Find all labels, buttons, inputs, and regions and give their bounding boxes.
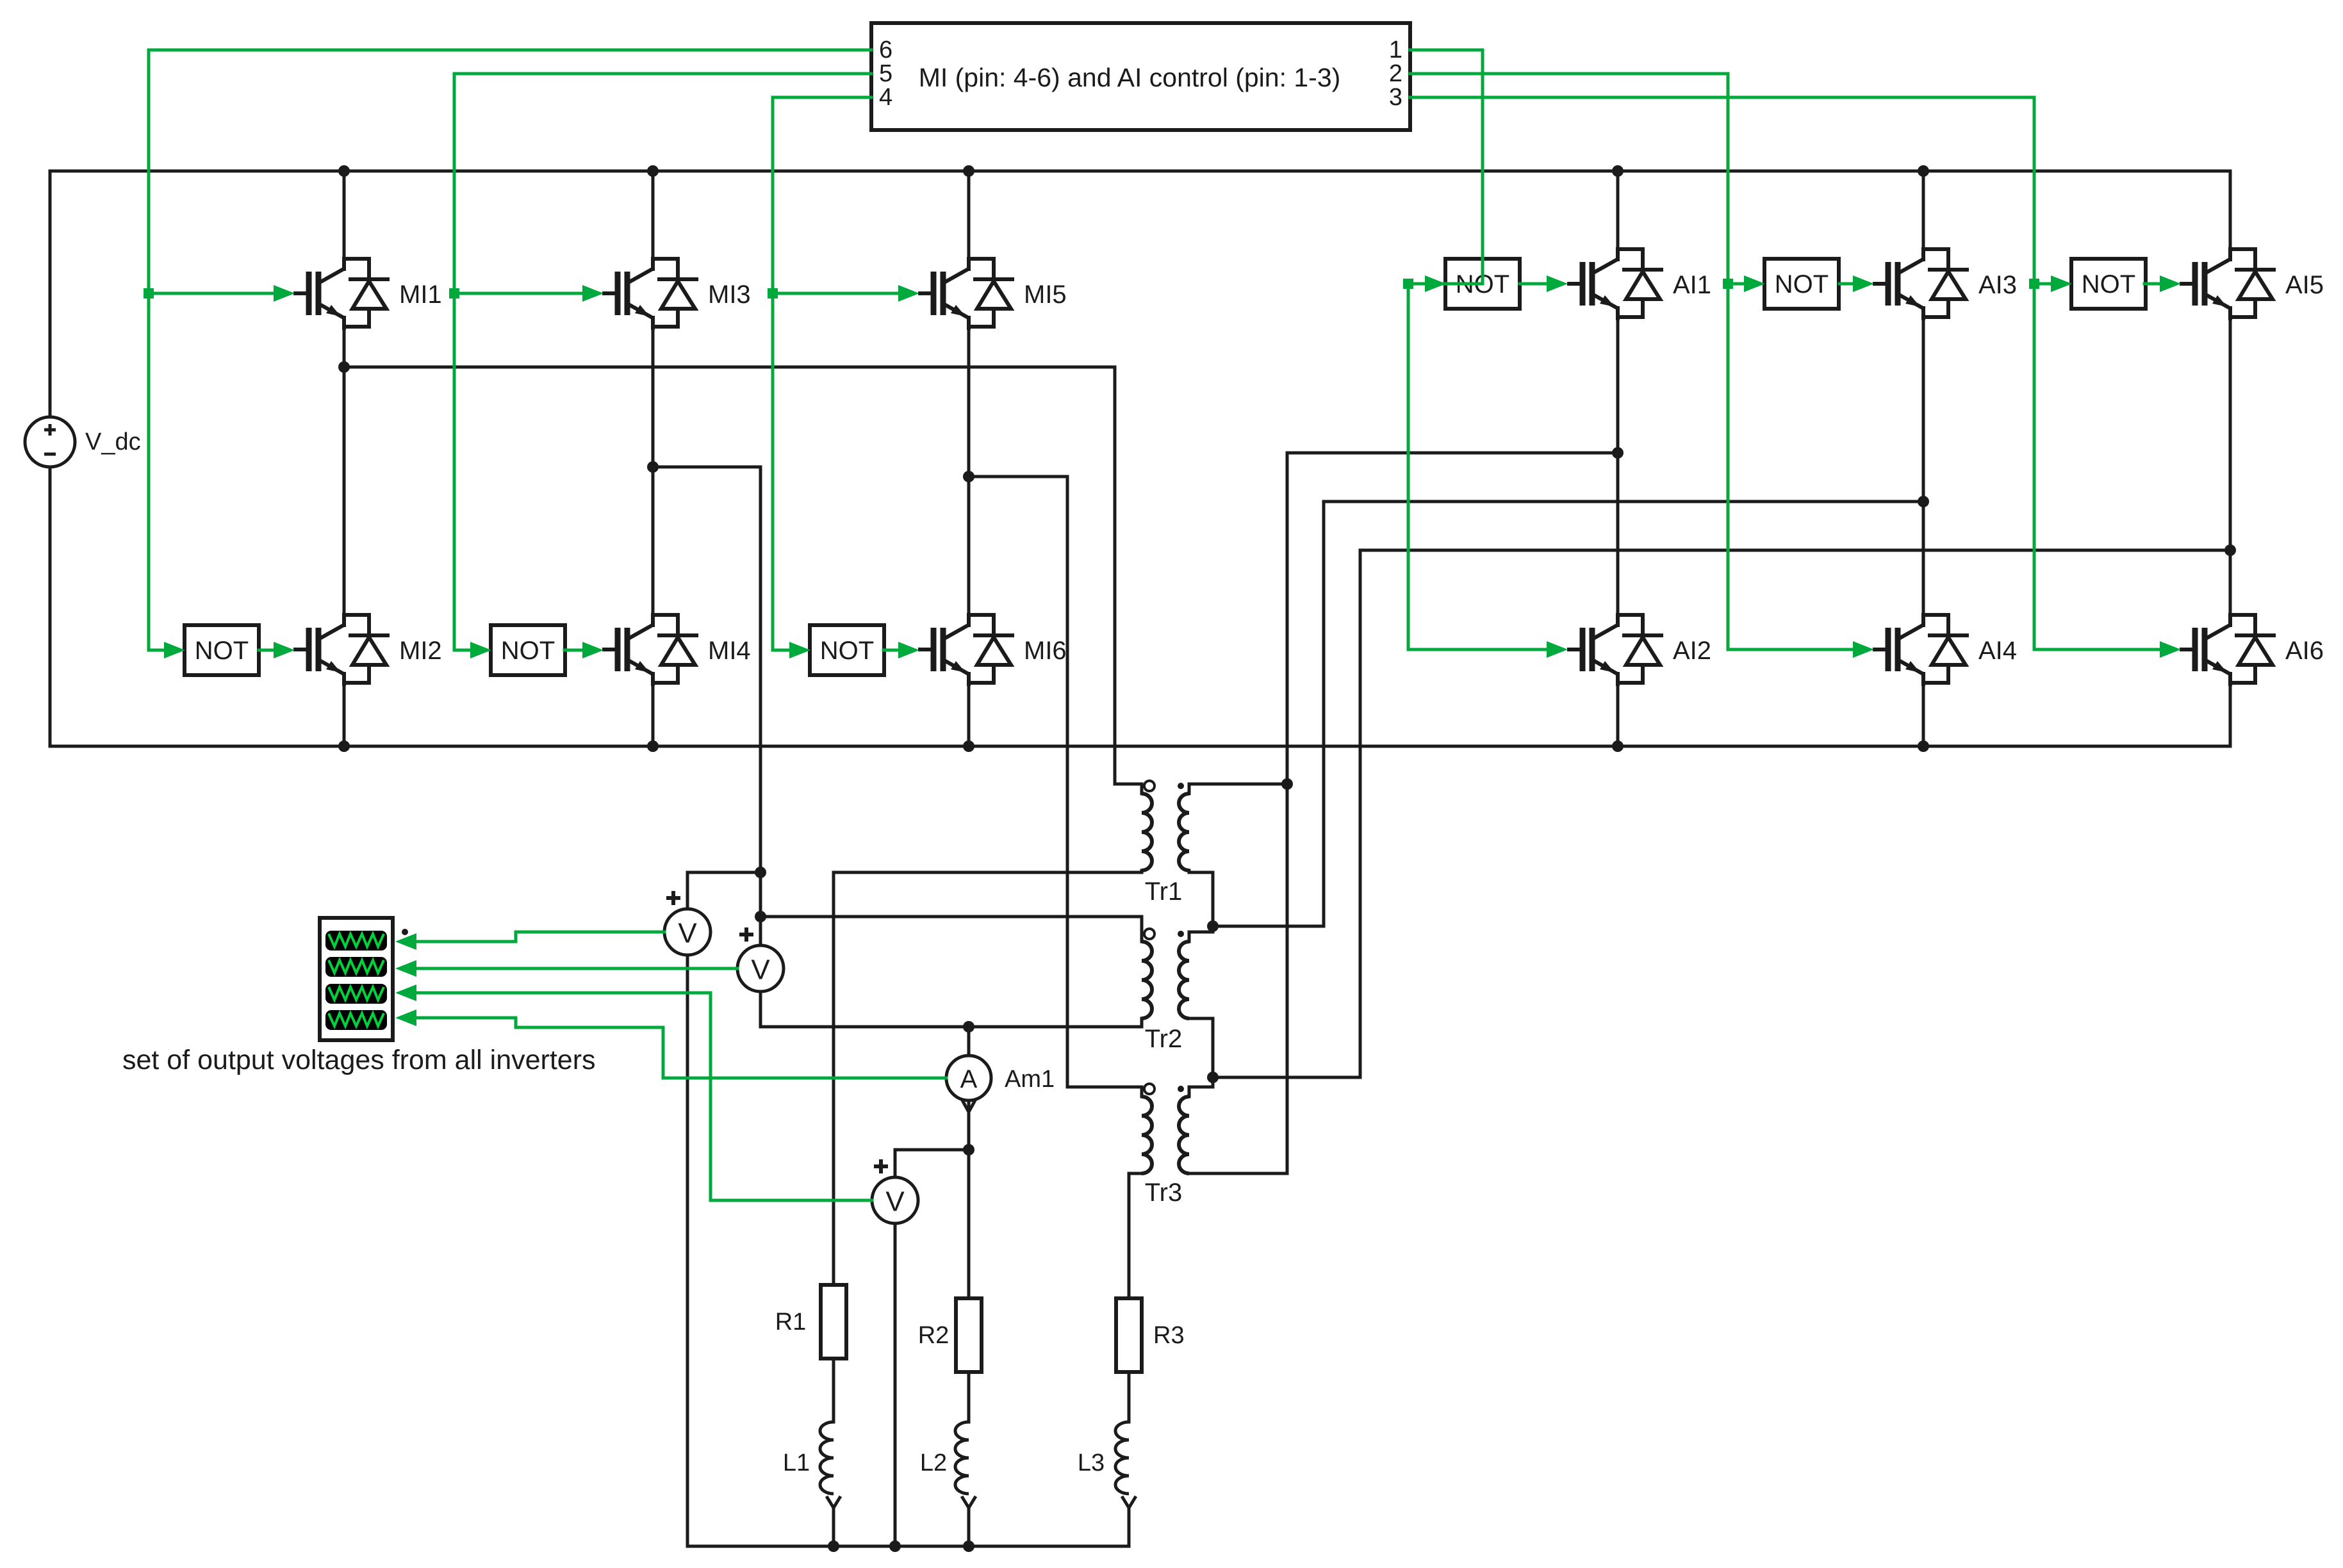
resistor R1 bbox=[775, 1285, 846, 1359]
junction: Tr1/Tr2 secondary link node bbox=[1207, 920, 1219, 932]
junction: AI3 collector on top bus bbox=[1918, 165, 1929, 177]
arrowhead: scope trace 2 bbox=[395, 960, 416, 977]
wire: common load return rail bbox=[687, 1545, 1129, 1548]
transformer Tr2 secondary winding bbox=[1179, 942, 1189, 1018]
junction: MI3 collector on top bus bbox=[647, 165, 659, 177]
ammeter Am1 bbox=[946, 1056, 1055, 1100]
inductor L3 bbox=[1078, 1422, 1136, 1508]
transistor MI6 (IGBT with anti-parallel diode) bbox=[918, 615, 1067, 684]
svg-text:MI4: MI4 bbox=[708, 637, 751, 665]
transistor AI3 (IGBT with anti-parallel diode) bbox=[1873, 249, 2017, 318]
junction: V3 branch on rail bbox=[889, 1540, 901, 1552]
wire: R2 to L2 bbox=[967, 1372, 971, 1422]
wire: AI3 emitter to AI phase node bbox=[1922, 318, 1925, 502]
junction: MI4 emitter on bottom bus bbox=[647, 740, 659, 752]
wire: DC negative bottom bus bbox=[50, 745, 2230, 748]
svg-text:R1: R1 bbox=[775, 1309, 807, 1335]
wire: Tr2 primary top lead from phase B column bbox=[760, 917, 1142, 942]
polarity dot Tr1 secondary bbox=[1178, 783, 1184, 789]
wire: L3 to common rail bbox=[1128, 1508, 1131, 1546]
wire: AI5 collector from top bus corner bbox=[2229, 171, 2232, 249]
svg-text:R3: R3 bbox=[1153, 1322, 1185, 1349]
svg-text:AI5: AI5 bbox=[2285, 271, 2324, 299]
junction: MI1 collector on top bus bbox=[338, 165, 350, 177]
junction: V3 tap on Am1/R2 branch bbox=[963, 1144, 974, 1156]
svg-text:5: 5 bbox=[879, 60, 892, 87]
wire: scope trace 1 from V1 bbox=[416, 932, 664, 942]
logic inverter NOT N1 bbox=[185, 625, 259, 675]
wire: Tr2 secondary bottom to Tr3 secondary top link bbox=[1189, 1018, 1213, 1097]
svg-text:V_dc: V_dc bbox=[85, 429, 141, 455]
wire: AI phase b horizontal from Tr1/Tr2 link to AI3 node bbox=[1213, 502, 1923, 926]
junction: phase A node bbox=[338, 361, 350, 373]
arrowhead: N6 output bbox=[2160, 275, 2181, 292]
transistor MI1 (IGBT with anti-parallel diode) bbox=[293, 259, 442, 328]
arrowhead: pin6 to MI1 gate bbox=[274, 285, 295, 302]
svg-text:MI3: MI3 bbox=[708, 281, 751, 309]
arrowhead: pin5 to NOT N2 input bbox=[470, 642, 491, 658]
wire: MI3 emitter to phase node B bbox=[652, 328, 655, 467]
transistor MI2 (IGBT with anti-parallel diode) bbox=[293, 615, 442, 684]
wire: AI phase c horizontal from Tr2/Tr3 link to AI5 node bbox=[1213, 550, 2230, 1077]
svg-text:4: 4 bbox=[879, 84, 892, 111]
wire: left bus from V_dc to top bus bbox=[49, 171, 52, 417]
wire: pin6 net to MI1 gate and NOT N1 bbox=[144, 50, 871, 650]
polarity dot Tr1 primary bbox=[1144, 781, 1155, 791]
svg-text:Tr3: Tr3 bbox=[1145, 1179, 1183, 1207]
junction: MI6 emitter on bottom bus bbox=[963, 740, 974, 752]
svg-text:MI (pin: 4-6) and AI control (: MI (pin: 4-6) and AI control (pin: 1-3) bbox=[919, 63, 1341, 92]
wire: V3 negative lead down to common rail bbox=[894, 1223, 897, 1546]
resistor R2 bbox=[918, 1298, 982, 1372]
svg-text:MI6: MI6 bbox=[1024, 637, 1067, 665]
svg-text:MI1: MI1 bbox=[399, 281, 442, 309]
wire: phase C from MI5/MI6 node to Tr3 primary top bbox=[969, 477, 1142, 1097]
svg-text:L2: L2 bbox=[920, 1450, 947, 1476]
wire: NOT N2 output to MI4 gate bbox=[564, 649, 583, 652]
svg-text:MI2: MI2 bbox=[399, 637, 442, 665]
arrowhead: N3 output bbox=[898, 642, 919, 658]
voltmeter V3 bbox=[872, 1177, 918, 1223]
wire: phase B from MI3/MI4 node down to measurement column bbox=[653, 467, 760, 945]
junction: Tr2/Tr3 secondary link node bbox=[1207, 1072, 1219, 1083]
arrowhead: pin4 to MI5 gate bbox=[898, 285, 919, 302]
arrowhead: scope trace 4 bbox=[395, 1009, 416, 1026]
wire: AI6 emitter to bottom bus corner bbox=[2229, 684, 2232, 746]
svg-text:AI4: AI4 bbox=[1978, 637, 2017, 665]
inductor L1 bbox=[783, 1422, 841, 1508]
wire: AI phase a horizontal from Tr chain to AI1 node bbox=[1189, 453, 1617, 1173]
wire: V3 positive lead to Am1 branch bbox=[895, 1150, 969, 1177]
wire: pin1 net to NOT N4 and AI2 gate bbox=[1403, 50, 1552, 649]
arrowhead: pin3 to NOT N6 input bbox=[2051, 275, 2072, 292]
logic inverter NOT N2 bbox=[491, 625, 565, 675]
wire: scope trace 3 from V3 bbox=[416, 993, 872, 1200]
wire: Am1 top lead from Tr2 primary bottom node bbox=[967, 1027, 971, 1056]
svg-text:R2: R2 bbox=[918, 1322, 950, 1349]
svg-text:L3: L3 bbox=[1078, 1450, 1105, 1476]
arrowhead: N4 output bbox=[1547, 275, 1568, 292]
wire: NOT N5 output to AI3 gate bbox=[1839, 282, 1854, 286]
junction: phase B column at Tr2 primary top bbox=[755, 911, 766, 922]
wire: MI1 emitter to phase node A bbox=[343, 328, 346, 367]
wire: Tr3 primary bottom lead to load column R3 bbox=[1129, 1173, 1142, 1298]
transistor AI5 (IGBT with anti-parallel diode) bbox=[2180, 249, 2324, 318]
arrowhead: pin2 to AI4 gate bbox=[1853, 641, 1874, 658]
wire: phase A node to MI2 collector bbox=[343, 367, 346, 615]
polarity dot Tr3 secondary bbox=[1178, 1086, 1184, 1092]
arrowhead: scope trace 3 bbox=[395, 984, 416, 1001]
svg-text:Tr1: Tr1 bbox=[1145, 878, 1183, 906]
polarity dot Tr2 primary bbox=[1144, 929, 1155, 939]
transistor MI3 (IGBT with anti-parallel diode) bbox=[602, 259, 751, 328]
wire: MI1 collector from top bus bbox=[343, 171, 346, 259]
arrowhead: pin4 to NOT N3 input bbox=[789, 642, 810, 658]
wire: AI1 collector from top bus bbox=[1616, 171, 1620, 249]
wire: Tr2 primary bottom lead across to V2 column bbox=[760, 992, 1142, 1027]
voltage source V_dc bbox=[25, 417, 141, 467]
wire: AI3 collector from top bus bbox=[1922, 171, 1925, 249]
wire: R3 to L3 bbox=[1128, 1372, 1131, 1422]
transformer Tr3 secondary winding bbox=[1179, 1097, 1189, 1173]
transistor AI6 (IGBT with anti-parallel diode) bbox=[2180, 615, 2324, 684]
svg-text:AI2: AI2 bbox=[1673, 637, 1711, 665]
polarity dot Tr3 primary bbox=[1144, 1084, 1155, 1094]
polarity dot Tr2 secondary bbox=[1178, 931, 1184, 937]
wire: V1 negative lead down to common rail bbox=[686, 955, 689, 1546]
wire: Tr1 secondary top lead bbox=[1189, 784, 1287, 794]
arrowhead: pin6 to NOT N1 input bbox=[164, 642, 185, 658]
plus mark V1 bbox=[666, 891, 680, 905]
svg-text:1: 1 bbox=[1389, 37, 1402, 63]
arrowhead: pin3 to AI6 gate bbox=[2160, 641, 2181, 658]
wire: L2 to common rail bbox=[967, 1508, 971, 1546]
wire: pin3 net to NOT N6 and AI6 gate bbox=[1410, 97, 2166, 649]
wire: phase C node to MI6 collector bbox=[967, 477, 971, 615]
svg-text:AI3: AI3 bbox=[1978, 271, 2017, 299]
transformer Tr1 primary winding bbox=[1142, 794, 1152, 870]
arrowhead: N2 output bbox=[582, 642, 604, 658]
junction: AI phase node c bbox=[2224, 544, 2236, 556]
junction: phase B node bbox=[647, 461, 659, 473]
wire: pin5 net to MI3 gate and NOT N2 bbox=[449, 74, 871, 650]
wire: L1 to common rail bbox=[832, 1508, 835, 1546]
svg-text:set of output voltages from al: set of output voltages from all inverter… bbox=[122, 1045, 596, 1075]
wire: phase A from MI1/MI2 node to Tr1 primary top bbox=[344, 367, 1142, 794]
wire: Tr1 secondary bottom to Tr2 secondary top link bbox=[1189, 870, 1213, 942]
resistor R3 bbox=[1116, 1298, 1185, 1372]
arrowhead: pin5 to MI3 gate bbox=[582, 285, 604, 302]
arrowhead: pin1 to AI2 gate bbox=[1547, 641, 1568, 658]
svg-text:L1: L1 bbox=[783, 1450, 810, 1476]
wire: AI phase node c to AI6 collector bbox=[2229, 550, 2232, 615]
wire: MI4 emitter to bottom bus bbox=[652, 684, 655, 746]
oscilloscope: set of output voltages display bbox=[320, 918, 393, 1040]
junction: ammeter tap on Tr2 primary bottom lead bbox=[963, 1021, 974, 1033]
wire: AI1 emitter to AI phase node bbox=[1616, 318, 1620, 453]
svg-text:6: 6 bbox=[879, 37, 892, 63]
wire: MI5 emitter to phase node C bbox=[967, 328, 971, 477]
logic inverter NOT N6 bbox=[2071, 259, 2146, 309]
junction: phase B column with V1 lead bbox=[755, 867, 766, 878]
arrowhead: pin2 to NOT N5 input bbox=[1744, 275, 1765, 292]
wire: MI3 collector from top bus bbox=[652, 171, 655, 259]
junction: AI1 collector on top bus bbox=[1612, 165, 1624, 177]
junction: emitter on bottom bus at x=2525 bbox=[1612, 740, 1624, 752]
junction: MI5 collector on top bus bbox=[963, 165, 974, 177]
logic inverter NOT N5 bbox=[1764, 259, 1839, 309]
wire: scope trace 4 from Am1 bbox=[416, 1018, 946, 1078]
wire: NOT N4 output to AI1 gate bbox=[1520, 282, 1547, 286]
svg-text:3: 3 bbox=[1389, 84, 1402, 111]
wire: MI2 emitter to bottom bus bbox=[343, 684, 346, 746]
wire: V1 positive lead to phase B column bbox=[687, 872, 760, 909]
logic inverter NOT N3 bbox=[810, 625, 884, 675]
arrowhead: pin1 to NOT N4 input bbox=[1425, 275, 1446, 292]
wire: MI6 emitter to bottom bus bbox=[967, 684, 971, 746]
wire: lower transistor emitter to bottom bus bbox=[1922, 684, 1925, 746]
wire: lower transistor emitter to bottom bus bbox=[1616, 684, 1620, 746]
wire: scope trace 2 from V2 bbox=[416, 967, 737, 970]
svg-text:Am1: Am1 bbox=[1005, 1066, 1055, 1093]
plus mark V2 bbox=[739, 927, 753, 942]
transformer Tr2 primary winding bbox=[1142, 942, 1152, 1018]
arrowhead: N1 output bbox=[274, 642, 295, 658]
transistor MI5 (IGBT with anti-parallel diode) bbox=[918, 259, 1067, 328]
wire: MI5 collector from top bus bbox=[967, 171, 971, 259]
logic inverter NOT N4 bbox=[1445, 259, 1520, 309]
svg-text:AI1: AI1 bbox=[1673, 271, 1711, 299]
wire: R1 to L1 bbox=[832, 1359, 835, 1422]
transistor MI4 (IGBT with anti-parallel diode) bbox=[602, 615, 751, 684]
wire: NOT N1 output to MI2 gate bbox=[259, 649, 274, 652]
voltmeter V1 bbox=[664, 909, 711, 955]
wire: Am1 bottom lead with arrow to R2 branch bbox=[962, 1099, 976, 1298]
transistor AI1 (IGBT with anti-parallel diode) bbox=[1567, 249, 1711, 318]
wire: pin4 net to MI5 gate and NOT N3 bbox=[768, 97, 899, 650]
junction: Tr1 secondary top tap on vertical x=2009 bbox=[1281, 778, 1293, 790]
junction: AI phase node at x=2525 bbox=[1612, 447, 1624, 459]
wire: phase B node to MI4 collector bbox=[652, 467, 655, 615]
svg-text:AI6: AI6 bbox=[2285, 637, 2324, 665]
control block: MI and AI control bbox=[871, 23, 1410, 130]
wire: pin2 net to NOT N5 and AI4 gate bbox=[1410, 74, 1859, 649]
junction: AI phase node at x=3002 bbox=[1918, 496, 1929, 507]
junction: R2 branch on rail bbox=[963, 1540, 974, 1552]
transistor AI2 (IGBT with anti-parallel diode) bbox=[1567, 615, 1711, 684]
svg-text:2: 2 bbox=[1389, 60, 1402, 87]
wire: DC positive top bus bbox=[50, 170, 2230, 173]
junction: emitter on bottom bus at x=3002 bbox=[1918, 740, 1929, 752]
wire: left bus from V_dc to bottom bus bbox=[49, 467, 52, 746]
plus mark V3 bbox=[874, 1159, 888, 1173]
voltmeter V2 bbox=[737, 945, 784, 992]
transformer Tr3 primary winding bbox=[1142, 1097, 1152, 1173]
junction: R1 branch on rail bbox=[828, 1540, 839, 1552]
inductor L2 bbox=[920, 1422, 976, 1508]
wire: AI5 emitter to AI phase node c bbox=[2229, 318, 2232, 550]
wire: AI phase node to lower transistor collector bbox=[1922, 502, 1925, 615]
arrowhead: scope trace 1 bbox=[395, 933, 416, 950]
svg-text:Tr2: Tr2 bbox=[1145, 1025, 1183, 1053]
svg-text:MI5: MI5 bbox=[1024, 281, 1067, 309]
junction: phase C node bbox=[963, 471, 974, 482]
wire: NOT N3 output to MI6 gate bbox=[884, 649, 899, 652]
wire: AI phase node to lower transistor collector bbox=[1616, 453, 1620, 615]
transistor AI4 (IGBT with anti-parallel diode) bbox=[1873, 615, 2017, 684]
wire: Tr1 primary bottom lead to load column R1 bbox=[834, 870, 1142, 1285]
transformer Tr1 secondary winding bbox=[1179, 794, 1189, 870]
wire: NOT N6 output to AI5 gate bbox=[2144, 282, 2160, 286]
decoration dot at scope corner bbox=[402, 929, 408, 935]
junction: MI2 emitter on bottom bus bbox=[338, 740, 350, 752]
arrowhead: N5 output bbox=[1853, 275, 1874, 292]
